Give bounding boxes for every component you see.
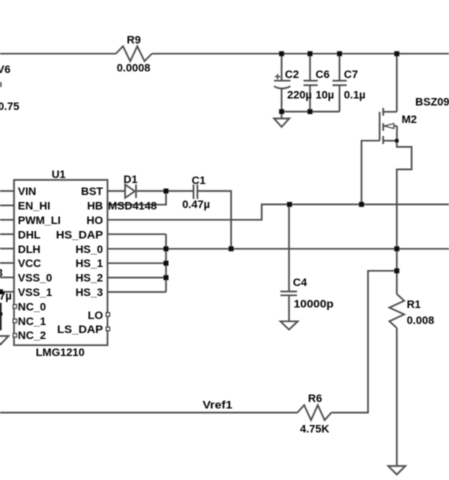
svg-text:BSZ097: BSZ097 — [415, 97, 449, 109]
U1 pin labels — [18, 186, 104, 342]
capacitor C7 — [339, 54, 341, 80]
wire M2 gate lead — [362, 141, 380, 205]
node dot C4 tap — [287, 202, 292, 207]
V6 plus fragment — [0, 82, 2, 87]
svg-text:LS_DAP: LS_DAP — [57, 324, 103, 336]
ground under C4 — [280, 321, 297, 329]
svg-text:220µ: 220µ — [287, 90, 312, 102]
svg-text:V6: V6 — [0, 64, 10, 76]
node dot VSS_1 left edge — [0, 289, 3, 294]
wire U1 left pin stubs — [0, 190, 14, 192]
unconnected pin squares — [13, 305, 109, 337]
svg-text:EN_HI: EN_HI — [18, 201, 50, 213]
svg-text:BST: BST — [81, 186, 103, 198]
svg-text:C3: C3 — [0, 267, 3, 279]
svg-text:R9: R9 — [127, 35, 141, 47]
svg-text:C7: C7 — [344, 69, 358, 81]
pin square NC_2 — [13, 334, 16, 337]
svg-text:0.0008: 0.0008 — [117, 63, 151, 75]
resistor R1 — [389, 294, 404, 328]
svg-text:10µ: 10µ — [316, 90, 335, 102]
resistor R9 — [116, 46, 152, 61]
capacitor C6 — [309, 54, 311, 80]
svg-text:HS_1: HS_1 — [75, 258, 103, 270]
svg-text:VSS_0: VSS_0 — [18, 273, 52, 285]
svg-text:0.75: 0.75 — [0, 101, 19, 113]
svg-text:D1: D1 — [124, 174, 138, 186]
svg-text:DHL: DHL — [18, 229, 41, 241]
ground under C3 (clipped) — [0, 336, 9, 345]
wire M2 source jog down to HS net — [397, 141, 412, 249]
svg-text:NC_1: NC_1 — [18, 316, 46, 328]
node dot C6 top — [308, 51, 313, 56]
wire HS_2 stub — [108, 277, 167, 279]
svg-text:NC_2: NC_2 — [18, 330, 46, 342]
node dot M2 source on HS — [394, 246, 399, 251]
wire HS net to right edge — [166, 248, 449, 250]
node dot M2 body-source — [395, 139, 399, 143]
capacitor C2 (polarized) — [281, 54, 283, 80]
svg-text:HS_0: HS_0 — [75, 244, 103, 256]
svg-text:C6: C6 — [316, 69, 330, 81]
svg-text:MSD4148: MSD4148 — [108, 200, 157, 212]
node dot C2 bottom — [279, 109, 284, 114]
wire R1 to ground — [396, 328, 398, 466]
wire R6 to R1 node — [331, 271, 396, 413]
pin square LO — [106, 313, 109, 316]
svg-text:C1: C1 — [192, 175, 206, 187]
ground under capacitor bank — [281, 112, 283, 119]
svg-text:VSS_1: VSS_1 — [18, 287, 52, 299]
diode D1 — [125, 185, 135, 198]
node dot C2 top — [279, 51, 284, 56]
svg-text:HO: HO — [87, 215, 104, 227]
svg-text:C4: C4 — [293, 277, 308, 289]
node dot HS bus 3 — [164, 275, 169, 280]
wire HS_DAP stub — [108, 233, 167, 235]
svg-text:DLH: DLH — [18, 244, 41, 256]
wire BST pin stub — [108, 190, 125, 192]
wire top net from R9 to right edge — [152, 53, 449, 55]
svg-text:LMG1210: LMG1210 — [36, 347, 85, 359]
node dot gate drop — [359, 202, 364, 207]
svg-text:HS_2: HS_2 — [75, 273, 103, 285]
svg-text:Vref1: Vref1 — [203, 400, 233, 412]
svg-text:R6: R6 — [308, 393, 322, 405]
svg-text:VCC: VCC — [18, 258, 41, 270]
svg-text:HS_3: HS_3 — [75, 287, 103, 299]
node dot HS bus 1 — [164, 246, 169, 251]
wire HS_3 stub — [108, 291, 167, 293]
svg-text:0.47µ: 0.47µ — [182, 199, 210, 211]
svg-text:M2: M2 — [402, 114, 417, 126]
capacitor C3 fragment at left edge — [0, 303, 2, 313]
svg-text:0.1µ: 0.1µ — [344, 90, 366, 102]
svg-text:C2: C2 — [285, 69, 299, 81]
svg-text:HB: HB — [87, 201, 103, 213]
svg-text:0.47µ: 0.47µ — [0, 291, 12, 303]
wire HO pin to gate-drive net — [108, 204, 449, 219]
transistor M2 drain wire — [396, 54, 398, 112]
node dot R6 feed — [394, 268, 399, 273]
wire Vref1 net — [0, 412, 297, 414]
node dot HS bus 2 — [164, 261, 169, 266]
wire D1 cathode to C1 — [137, 190, 194, 192]
wire HS bus vertical — [165, 234, 167, 292]
wire R1 top branch — [396, 249, 398, 294]
svg-text:HS_DAP: HS_DAP — [56, 229, 103, 241]
svg-text:10000p: 10000p — [294, 298, 334, 310]
svg-text:U1: U1 — [52, 169, 66, 181]
node dot C7 top — [337, 51, 342, 56]
svg-text:0.008: 0.008 — [407, 315, 435, 327]
node dot C1 drop on HS — [229, 246, 234, 251]
IC U1 box — [14, 180, 108, 345]
capacitor C1 — [193, 185, 195, 200]
wire HS_0 stub — [108, 248, 167, 250]
resistor R6 — [297, 405, 331, 420]
node dot C6 bottom — [308, 109, 313, 114]
ground under R1 — [388, 466, 405, 475]
svg-text:R1: R1 — [407, 299, 421, 311]
svg-text:PWM_LI: PWM_LI — [18, 215, 61, 227]
pin square NC_0 — [13, 305, 16, 308]
wire node BST/HB link — [108, 191, 167, 205]
pin square NC_1 — [13, 319, 16, 322]
wire capacitor bottom bus — [282, 111, 340, 113]
wire C1 to HS drop — [197, 191, 231, 249]
svg-text:LO: LO — [88, 310, 104, 322]
node dot M2 drain top — [394, 51, 399, 56]
svg-text:VIN: VIN — [18, 186, 36, 198]
wire top net from V6 to R9 — [0, 53, 116, 55]
wire C4 tap — [288, 204, 290, 290]
transistor M2 — [383, 111, 397, 113]
svg-text:4.75K: 4.75K — [300, 424, 329, 436]
pin square LS_DAP — [106, 327, 109, 330]
wire HS_1 stub — [108, 262, 167, 264]
node dot D1/C1/HB — [164, 189, 169, 194]
capacitor C4 — [280, 291, 297, 293]
svg-text:NC_0: NC_0 — [18, 301, 46, 313]
